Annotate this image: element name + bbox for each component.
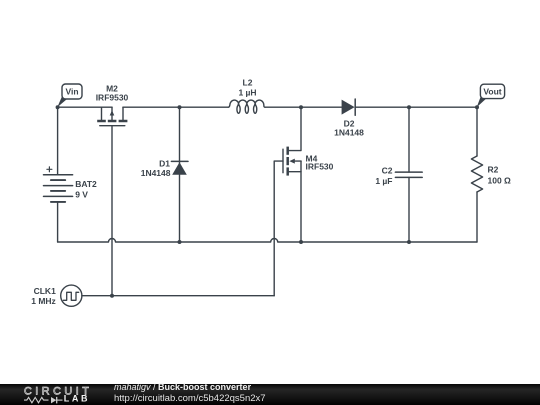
wire battery bottom to bottom rail xyxy=(57,202,59,242)
svg-text:R2: R2 xyxy=(488,165,499,175)
net flag Vout xyxy=(477,84,505,107)
svg-text:1N4148: 1N4148 xyxy=(141,168,171,178)
svg-text:1N4148: 1N4148 xyxy=(334,128,364,138)
svg-text:IRF9530: IRF9530 xyxy=(96,93,129,103)
svg-text:L2: L2 xyxy=(243,78,253,88)
wire D1 branch (top rail to bottom rail) xyxy=(179,107,181,242)
wire top rail: L2 to D2 xyxy=(265,106,342,108)
capacitor C2 branch wire top xyxy=(408,107,410,172)
inductor L2 xyxy=(228,100,265,113)
wire bottom rail (with hops over gate wires) xyxy=(58,239,477,242)
junction dot M4 source at bottom rail xyxy=(299,240,303,244)
svg-text:100 Ω: 100 Ω xyxy=(488,176,512,186)
diode D1 (1N4148) xyxy=(171,161,188,174)
label R2 value 100 Ohm xyxy=(488,165,512,186)
svg-text:C2: C2 xyxy=(382,165,393,175)
svg-text:1 µF: 1 µF xyxy=(375,176,392,186)
resistor R2 branch wire top xyxy=(476,107,478,156)
footer url text xyxy=(114,393,266,404)
logo resistor zigzag and diode glyph xyxy=(24,397,63,404)
svg-text:9 V: 9 V xyxy=(75,189,88,199)
junction dot Vout anchor xyxy=(475,105,479,109)
svg-text:http://circuitlab.com/c5b422qs: http://circuitlab.com/c5b422qs5n2x7 xyxy=(114,393,266,404)
transistor M2 (PMOS IRF9530) xyxy=(97,107,127,126)
svg-text:1 µH: 1 µH xyxy=(238,88,256,98)
svg-text:IRF530: IRF530 xyxy=(306,162,334,172)
junction dot C2 bottom xyxy=(407,240,411,244)
svg-text:LAB: LAB xyxy=(64,393,90,403)
label D2 value 1N4148 xyxy=(334,119,364,138)
junction dot D1 bottom xyxy=(178,240,182,244)
wire M2 gate down to CLK net (crosses bottom rail) xyxy=(111,126,113,296)
footer title text: author / circuit name xyxy=(114,382,252,392)
label M4 value IRF530 xyxy=(306,153,334,171)
junction dot C2 top xyxy=(407,105,411,109)
label CLK1 value 1 MHz xyxy=(31,286,56,306)
wire top rail: D2 to Vout corner xyxy=(355,106,477,108)
transistor M4 (NMOS IRF530) xyxy=(283,107,301,242)
net flag Vin xyxy=(57,84,82,107)
junction dot Vin anchor xyxy=(56,105,60,109)
resistor R2 xyxy=(471,156,482,192)
junction dot CLK net and M2 gate xyxy=(110,294,114,298)
svg-text:BAT2: BAT2 xyxy=(75,179,97,189)
label D1 value 1N4148 xyxy=(141,158,171,178)
battery BAT2 xyxy=(44,167,73,202)
label C2 value 1 uF xyxy=(375,165,392,186)
svg-text:D1: D1 xyxy=(159,158,170,168)
label BAT2 value 9 V xyxy=(75,179,97,199)
wire left rail: Vin corner down to battery top xyxy=(57,107,59,175)
clock source CLK1 xyxy=(61,285,82,306)
junction dot D1 top xyxy=(178,105,182,109)
svg-text:Vout: Vout xyxy=(483,86,501,96)
wire M4 gate down to CLK net (crosses bottom rail) xyxy=(274,161,283,296)
label M2 value IRF9530 xyxy=(96,84,129,103)
resistor R2 branch wire bottom xyxy=(476,192,478,242)
diode D2 (1N4148) xyxy=(342,99,356,115)
svg-text:1 MHz: 1 MHz xyxy=(31,296,56,306)
wire top rail: M2 drain to L2 xyxy=(123,106,228,108)
junction dot M4 drain at top rail xyxy=(299,105,303,109)
label L2 value 1 uH xyxy=(238,78,256,98)
logo CircuitLab wordmark CIRCUIT xyxy=(24,385,92,397)
capacitor C2 xyxy=(395,172,422,177)
svg-text:mahatigv / Buck-boost converte: mahatigv / Buck-boost converter xyxy=(114,382,252,392)
wire top-left rail Vin node to M2 source/body xyxy=(58,106,112,108)
footer bar xyxy=(0,384,540,405)
logo LAB text xyxy=(64,393,90,403)
capacitor C2 branch wire bottom xyxy=(408,177,410,242)
svg-text:Vin: Vin xyxy=(65,87,78,97)
svg-text:CLK1: CLK1 xyxy=(34,286,56,296)
wire CLK net: CLK1 output to M4 gate riser xyxy=(82,295,274,297)
